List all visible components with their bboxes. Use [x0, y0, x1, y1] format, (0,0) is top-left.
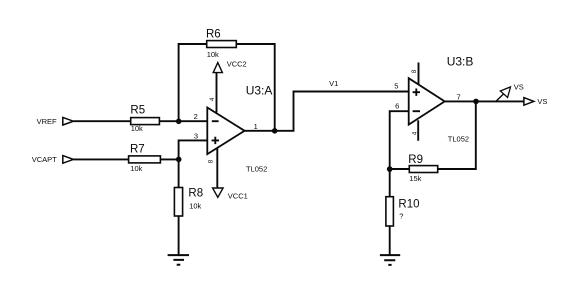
svg-text:VCC2: VCC2: [227, 59, 247, 68]
svg-text:?: ?: [399, 211, 403, 220]
svg-text:10k: 10k: [130, 164, 142, 173]
svg-text:U3:B: U3:B: [447, 55, 474, 69]
svg-text:10k: 10k: [131, 124, 143, 133]
svg-text:6: 6: [395, 102, 399, 111]
svg-text:10k: 10k: [189, 202, 201, 211]
svg-text:VCC1: VCC1: [228, 192, 248, 201]
svg-text:VCAPT: VCAPT: [32, 155, 57, 164]
svg-text:VS: VS: [537, 97, 547, 106]
svg-text:VS: VS: [514, 82, 524, 91]
svg-text:TL052: TL052: [448, 134, 469, 143]
svg-text:TL052: TL052: [246, 165, 267, 174]
svg-text:R10: R10: [398, 198, 419, 210]
svg-text:VREF: VREF: [37, 117, 57, 126]
svg-text:R8: R8: [188, 188, 203, 200]
svg-text:2: 2: [194, 112, 198, 121]
svg-text:U3:A: U3:A: [246, 83, 273, 97]
svg-text:3: 3: [194, 132, 198, 141]
svg-text:10k: 10k: [207, 50, 219, 59]
svg-text:V1: V1: [329, 79, 338, 88]
svg-text:R6: R6: [206, 29, 221, 41]
svg-text:1: 1: [254, 122, 258, 131]
svg-text:5: 5: [394, 81, 398, 90]
svg-text:R9: R9: [408, 154, 423, 166]
svg-text:15k: 15k: [409, 174, 421, 183]
svg-text:R5: R5: [130, 105, 145, 117]
svg-text:R7: R7: [130, 143, 145, 155]
svg-text:7: 7: [457, 92, 461, 101]
